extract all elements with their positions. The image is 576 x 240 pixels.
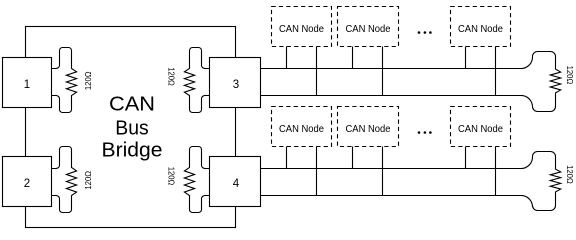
svg-text:CAN Node: CAN Node xyxy=(346,124,391,135)
svg-text:CAN: CAN xyxy=(109,93,155,115)
svg-text:120Ω: 120Ω xyxy=(167,67,177,86)
svg-text:CAN Node: CAN Node xyxy=(279,24,324,35)
svg-text:Bus: Bus xyxy=(115,118,148,140)
svg-text:CAN Node: CAN Node xyxy=(458,24,503,35)
svg-text:120Ω: 120Ω xyxy=(565,66,575,85)
svg-text:3: 3 xyxy=(233,79,239,91)
svg-text:4: 4 xyxy=(233,178,240,190)
svg-text:120Ω: 120Ω xyxy=(83,72,93,91)
svg-text:120Ω: 120Ω xyxy=(565,165,575,184)
svg-text:120Ω: 120Ω xyxy=(167,167,177,186)
svg-text:CAN Node: CAN Node xyxy=(279,124,324,135)
svg-text:1: 1 xyxy=(24,79,30,91)
svg-text:2: 2 xyxy=(24,178,30,190)
svg-text:120Ω: 120Ω xyxy=(83,171,93,190)
svg-text:CAN Node: CAN Node xyxy=(458,124,503,135)
svg-text:Bridge: Bridge xyxy=(102,139,163,161)
svg-text:CAN Node: CAN Node xyxy=(346,24,391,35)
